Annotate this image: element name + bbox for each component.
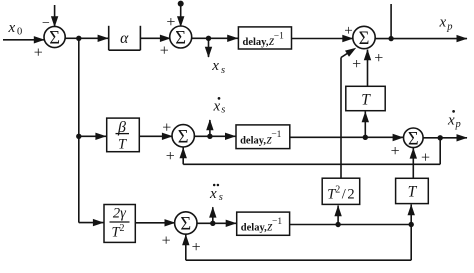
wire into S2 top: [180, 4, 182, 27]
svg-text:α: α: [120, 30, 129, 47]
arrowhead into S3 left: [342, 35, 353, 42]
summer S5: [172, 125, 194, 147]
wire feedback into S1 top: [54, 5, 56, 27]
gain block alpha (open top): [108, 26, 110, 50]
wire bus corner to gamma block: [79, 222, 105, 224]
summer S2: [170, 26, 192, 48]
wire node J down: [410, 225, 412, 261]
wire node H to delay D3: [213, 222, 238, 224]
summer S4: [404, 128, 424, 148]
svg-text:Σ: Σ: [359, 29, 370, 49]
arrowhead xp output: [457, 35, 468, 42]
svg-text:T2/2: T2/2: [327, 185, 354, 203]
arrowhead into S5 left: [162, 133, 173, 140]
wire node I up to T2/2: [337, 206, 339, 225]
node F (junction to T upper): [363, 135, 368, 140]
arrowhead diagonal into S3: [345, 48, 356, 57]
wire S3 output: [375, 38, 392, 40]
svg-text:s: s: [221, 105, 225, 116]
arrowhead into S6 bottom: [182, 234, 189, 245]
wire beta block to summer S5: [139, 135, 173, 137]
wire to alpha block: [79, 37, 109, 39]
svg-text:+: +: [374, 50, 383, 67]
arrowhead into S6 left: [165, 219, 176, 226]
svg-text:+: +: [352, 56, 361, 73]
wire S5 output: [194, 135, 210, 137]
svg-text:p: p: [455, 119, 461, 130]
svg-text:0: 0: [17, 27, 22, 38]
arrowhead into delay D2: [225, 133, 236, 140]
svg-text:x: x: [447, 112, 455, 128]
delay block D3: [237, 212, 290, 235]
node H (xddot_s pickoff): [210, 221, 215, 226]
svg-text:x: x: [213, 98, 221, 114]
wire to beta block: [79, 135, 107, 137]
arrowhead into alpha block: [98, 35, 109, 42]
svg-text:s: s: [221, 65, 225, 76]
gain block beta/T: [107, 118, 140, 152]
wire feedback into S6 bottom: [185, 235, 187, 261]
wire node C up to top edge: [390, 4, 392, 39]
block T2/2: [322, 178, 360, 204]
node D (bus to beta block): [76, 134, 81, 139]
svg-text:+: +: [166, 148, 175, 165]
wire S6 output: [196, 222, 213, 224]
wire bottom feedback horizontal: [186, 259, 411, 261]
block T lower: [396, 178, 429, 203]
arrowhead xs down: [205, 47, 212, 58]
wire from T block up into S3: [367, 50, 369, 87]
wire D1 to summer S3: [292, 38, 355, 40]
wire gamma block to summer S6: [135, 222, 176, 224]
svg-text:+: +: [162, 232, 171, 249]
node A (S1 output junction): [76, 36, 81, 41]
node E (xdot_s pickoff): [207, 134, 212, 139]
svg-text:x: x: [8, 20, 16, 36]
wire xddot_s up: [212, 207, 214, 223]
svg-text:s: s: [219, 192, 223, 203]
arrowhead into T lower bottom: [408, 204, 415, 215]
node above S2: [178, 1, 184, 7]
wire row2 junction up to T upper: [364, 112, 366, 138]
gain block 2gamma/T^2: [104, 205, 135, 243]
svg-text:+: +: [344, 23, 352, 39]
delay block D1: [238, 27, 291, 49]
summer S3: [353, 26, 375, 48]
svg-text:+: +: [34, 45, 43, 62]
svg-text:Σ: Σ: [49, 29, 60, 49]
arrowhead into gamma block: [93, 219, 104, 226]
svg-text:p: p: [446, 21, 452, 32]
svg-text:Σ: Σ: [180, 215, 191, 235]
wire D3 output: [290, 224, 412, 226]
wire node E to delay D2: [210, 135, 237, 137]
svg-text:2γ: 2γ: [113, 206, 127, 222]
svg-text:Σ: Σ: [178, 127, 189, 147]
wire S2 output: [191, 37, 209, 39]
arrowhead into S2 top: [177, 16, 184, 27]
wire xp output: [391, 38, 467, 40]
arrowhead into delay D1: [227, 35, 238, 42]
node J (junction to T lower): [409, 222, 414, 227]
svg-text:+: +: [391, 143, 400, 160]
wire xdot_s up: [209, 120, 211, 136]
arrowhead xdot_s up: [206, 119, 213, 130]
arrowhead into beta block: [95, 133, 106, 140]
arrowhead into delay D3: [226, 220, 237, 227]
wire S1 output: [65, 37, 79, 39]
wire node J up to T lower: [410, 205, 412, 225]
svg-text:T: T: [408, 184, 418, 201]
wire xdot_p output: [440, 137, 467, 139]
wire alpha to summer S2: [140, 37, 171, 39]
wire bus vertical from node A: [78, 38, 80, 222]
wire from T2/2 block up: [340, 58, 342, 179]
node B (xs pickoff): [206, 36, 211, 41]
svg-text:x: x: [439, 15, 447, 31]
svg-text:x: x: [211, 58, 219, 74]
svg-text:T: T: [118, 137, 127, 153]
delay block D2: [236, 125, 290, 149]
svg-text:T: T: [361, 92, 371, 109]
svg-text:Σ: Σ: [175, 29, 186, 49]
wire xs down arrow: [208, 38, 210, 57]
svg-text:+: +: [160, 42, 169, 59]
arrowhead into T2/2 bottom: [334, 205, 341, 216]
block T upper: [346, 86, 385, 110]
wire feedback G down: [439, 138, 441, 165]
summer S6: [175, 212, 197, 234]
wire feedback into S5 bottom: [182, 148, 184, 165]
arrowhead into S5 bottom: [180, 147, 187, 158]
wire from T lower up into S4: [412, 148, 414, 178]
svg-text:+: +: [192, 239, 201, 256]
svg-text:+: +: [162, 119, 171, 136]
arrowhead into S2 left: [160, 35, 171, 42]
wire node B to delay D1: [209, 37, 240, 39]
node C (xp junction): [388, 36, 393, 41]
svg-text:Σ: Σ: [408, 129, 419, 149]
node I (junction to T2/2): [335, 222, 340, 227]
wire S4 output: [423, 137, 440, 139]
wire feedback row2 horizontal: [183, 163, 440, 165]
arrowhead into S4 bottom: [410, 148, 417, 159]
arrowhead into summer S1: [34, 36, 45, 43]
arrowhead into S4 left: [393, 134, 404, 141]
arrowhead into T upper bottom: [362, 111, 369, 122]
wire D2 to summer S4: [290, 136, 404, 138]
svg-text:x: x: [209, 186, 217, 202]
wire x0 input: [3, 39, 45, 41]
arrowhead into S1 top: [51, 16, 58, 27]
summer S1: [44, 26, 65, 47]
arrowhead xdot_p output: [457, 134, 468, 141]
node G (xdot_p junction): [438, 135, 443, 140]
arrowhead xddot_s up: [209, 207, 216, 218]
arrowhead into S3 bottom: [364, 49, 371, 60]
